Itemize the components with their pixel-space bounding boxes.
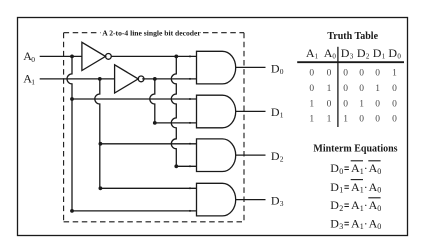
equation D0 <box>330 161 381 176</box>
svg-text:D: D <box>271 61 280 75</box>
svg-text:D: D <box>330 198 339 212</box>
svg-text:0: 0 <box>309 84 314 94</box>
truth table row 4 <box>309 115 397 125</box>
label D1 <box>271 105 284 120</box>
svg-text:0: 0 <box>377 222 381 231</box>
svg-text:1: 1 <box>315 52 319 60</box>
gate input stub nub 1 <box>189 55 191 57</box>
equation D2 <box>330 198 381 213</box>
truth table header A1 <box>306 46 319 60</box>
svg-text:A: A <box>369 198 378 212</box>
AND gate U6 <box>197 183 236 216</box>
wire A0 rail to gate U4 top input <box>72 98 197 100</box>
svg-text:0: 0 <box>392 84 397 94</box>
svg-text:2: 2 <box>339 204 343 213</box>
gate input stub nub 7 <box>189 187 191 189</box>
svg-text:A: A <box>369 217 378 231</box>
junction on A0bar line <box>174 55 178 59</box>
inverter U1 <box>82 42 111 70</box>
truth table header D2 <box>357 46 370 60</box>
svg-text:0: 0 <box>343 100 348 110</box>
dashed decoder box top edge left part <box>64 32 101 34</box>
svg-text:A: A <box>306 46 315 60</box>
truth table vertical divider <box>337 47 339 127</box>
wire A1bar from inverter U2 output <box>142 78 196 80</box>
svg-text:A: A <box>351 198 360 212</box>
svg-text:Truth Table: Truth Table <box>327 31 378 42</box>
svg-text:0: 0 <box>280 67 284 76</box>
svg-text:0: 0 <box>359 68 364 78</box>
svg-text:1: 1 <box>359 100 364 110</box>
gate input stub nub 6 <box>189 165 191 167</box>
svg-text:·: · <box>364 217 368 231</box>
svg-text:D: D <box>357 46 366 60</box>
svg-text:A: A <box>369 161 378 175</box>
svg-text:A: A <box>351 161 360 175</box>
truth table header underline <box>297 61 404 63</box>
label D3 <box>271 194 284 209</box>
svg-text:A: A <box>369 180 378 194</box>
svg-text:1: 1 <box>309 115 314 125</box>
svg-text:·: · <box>364 180 368 194</box>
svg-text:1: 1 <box>382 52 386 60</box>
svg-text:3: 3 <box>339 222 343 231</box>
label A0 <box>23 49 35 64</box>
svg-text:0: 0 <box>375 100 380 110</box>
svg-text:D: D <box>330 161 339 175</box>
wire A0 input <box>40 55 82 57</box>
inverter U2 <box>115 65 144 93</box>
truth table header A0 <box>324 46 337 60</box>
wire A0bar to gate U5 bottom input <box>176 165 196 167</box>
wire A1 to gate U6 top input <box>100 187 196 189</box>
svg-text:0: 0 <box>359 115 364 125</box>
truth table header D3 <box>341 46 354 60</box>
svg-text:0: 0 <box>392 100 397 110</box>
svg-text:0: 0 <box>309 68 314 78</box>
svg-text:Minterm Equations: Minterm Equations <box>313 144 397 155</box>
junction on A0 input <box>70 55 74 59</box>
svg-text:D: D <box>373 46 382 60</box>
svg-text:D: D <box>271 194 280 208</box>
svg-text:1: 1 <box>309 100 314 110</box>
wire D3 output <box>236 199 266 201</box>
svg-text:3: 3 <box>350 52 354 60</box>
label D2 <box>271 149 284 164</box>
svg-text:2: 2 <box>366 52 370 60</box>
junction A0 corner <box>70 209 74 213</box>
dashed decoder box left edge <box>63 33 65 222</box>
svg-text:D: D <box>271 105 280 119</box>
label A1 <box>23 72 35 87</box>
svg-text:0: 0 <box>377 186 381 195</box>
truth table row 2 <box>309 84 397 94</box>
wire A0 to gate U6 bottom input <box>72 210 197 212</box>
svg-text:0: 0 <box>375 68 380 78</box>
wire D0 output <box>236 66 266 68</box>
svg-text:D: D <box>341 46 350 60</box>
svg-text:0: 0 <box>377 167 381 176</box>
junction A1 corner <box>99 186 103 190</box>
gate input stub nub 4 <box>189 122 191 124</box>
svg-text:0: 0 <box>339 167 343 176</box>
svg-text:·: · <box>364 161 368 175</box>
junction on A1bar line <box>153 77 157 81</box>
truth table row 3 <box>309 100 397 110</box>
dashed decoder box top edge right part <box>203 32 244 34</box>
equation D3 <box>330 217 381 232</box>
svg-text:0: 0 <box>377 204 381 213</box>
svg-text:0: 0 <box>343 84 348 94</box>
wire A0 vertical rail with hop <box>67 56 72 211</box>
svg-text:1: 1 <box>327 84 332 94</box>
truth table row 1 <box>309 68 397 78</box>
svg-text:0: 0 <box>343 68 348 78</box>
wire A1 vertical rail with hop <box>95 79 100 188</box>
gate input stub nub 2 <box>189 78 191 80</box>
wire A0bar vertical rail with hops <box>171 56 176 166</box>
junction A0 rail tee <box>70 97 74 101</box>
svg-text:0: 0 <box>31 55 35 64</box>
AND gate U5 <box>197 139 236 172</box>
AND gate U3 <box>197 51 236 84</box>
equation D1 <box>330 180 381 195</box>
svg-text:1: 1 <box>392 68 397 78</box>
svg-text:1: 1 <box>343 115 348 125</box>
wire A1bar vertical rail with hop <box>150 79 155 123</box>
truth table header D0 <box>388 46 401 60</box>
svg-text:0: 0 <box>332 52 336 60</box>
svg-text:2: 2 <box>280 155 284 164</box>
svg-text:D: D <box>388 46 397 60</box>
gate input stub nub 8 <box>189 210 191 212</box>
svg-text:1: 1 <box>327 115 332 125</box>
junction A1bar corner <box>153 121 157 125</box>
svg-text:1: 1 <box>280 111 284 120</box>
wire A0bar from inverter U1 output to gate top input <box>111 55 196 57</box>
wire D1 output <box>236 110 266 112</box>
svg-text:D: D <box>330 180 339 194</box>
svg-text:3: 3 <box>280 199 284 208</box>
label D0 <box>271 61 284 76</box>
svg-text:0: 0 <box>375 115 380 125</box>
svg-text:·: · <box>364 198 368 212</box>
gate input stub nub 5 <box>189 143 191 145</box>
svg-text:0: 0 <box>392 115 397 125</box>
svg-text:1: 1 <box>339 186 343 195</box>
svg-text:D: D <box>271 149 280 163</box>
svg-text:A: A <box>351 180 360 194</box>
wire D2 output <box>236 154 266 156</box>
wire A1 input <box>40 78 115 80</box>
svg-text:0: 0 <box>327 68 332 78</box>
svg-text:0: 0 <box>359 84 364 94</box>
wire A1bar to gate U4 bottom input <box>155 122 197 124</box>
dashed decoder box right edge <box>243 33 245 222</box>
dashed decoder box bottom edge <box>64 221 244 223</box>
svg-text:A 2-to-4 line single bit decod: A 2-to-4 line single bit decoder <box>102 28 201 37</box>
junction on A1 input <box>98 77 102 81</box>
svg-text:A: A <box>324 46 333 60</box>
gate input stub nub 3 <box>189 98 191 100</box>
svg-text:1: 1 <box>31 77 35 86</box>
svg-text:1: 1 <box>375 84 380 94</box>
svg-text:0: 0 <box>327 100 332 110</box>
svg-text:D: D <box>330 217 339 231</box>
truth table header D1 <box>373 46 386 60</box>
svg-text:A: A <box>351 217 360 231</box>
junction A0bar corner <box>174 164 178 168</box>
svg-text:0: 0 <box>397 52 401 60</box>
wire A1 rail to gate U5 top input <box>100 143 196 145</box>
AND gate U4 <box>197 95 236 128</box>
junction A1 rail tee <box>99 142 103 146</box>
